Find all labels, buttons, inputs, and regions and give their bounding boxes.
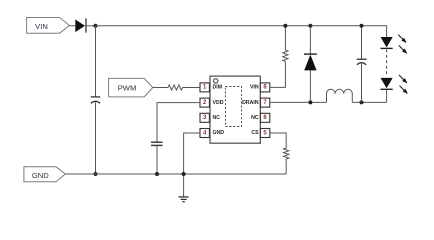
node C junction (C2 on ground rail) xyxy=(155,172,159,176)
LED1 emission arrows xyxy=(398,35,406,54)
U1 pin name GND xyxy=(213,130,225,136)
svg-text:PWM: PWM xyxy=(118,84,137,93)
resistor R3 (current sense, vertical) xyxy=(284,148,289,159)
wire LED2 to drain rail xyxy=(386,89,388,102)
svg-text:GND: GND xyxy=(213,130,225,136)
capacitor C2 (VDD decoupling) xyxy=(151,142,163,145)
node B junction (C1 on ground rail) xyxy=(94,172,98,176)
svg-text:VIN: VIN xyxy=(35,22,48,31)
wire pin 8 VIN to resistor R2 xyxy=(270,62,286,88)
wire node A down to capacitor C1 xyxy=(95,26,97,97)
svg-text:DRAIN: DRAIN xyxy=(242,100,259,106)
node D junction (pin4 on ground rail) xyxy=(182,172,186,176)
svg-text:VDD: VDD xyxy=(213,100,224,106)
pin 8 box xyxy=(260,83,269,92)
svg-text:NC: NC xyxy=(213,115,221,121)
U1 pin name NC (pin 3) xyxy=(213,115,221,121)
svg-text:CS: CS xyxy=(251,130,259,136)
wire pin 4 GND down to ground xyxy=(184,133,200,197)
node I junction (C3 on top rail) xyxy=(360,24,364,28)
wire VIN flag to diode D1 xyxy=(69,25,75,27)
wire resistor R3 to ground rail xyxy=(285,159,287,174)
flag GND xyxy=(24,167,65,182)
resistor R1 (PWM series) xyxy=(168,85,183,90)
LED1 xyxy=(381,37,393,48)
wire resistor R2 to top rail xyxy=(284,26,286,50)
node H junction (C3 on drain rail) xyxy=(360,100,364,104)
flag PWM xyxy=(109,78,153,97)
U1 pin name DIM xyxy=(213,85,223,91)
U1 pin name VDD xyxy=(213,100,224,106)
node F junction (D2 on top rail) xyxy=(308,24,312,28)
wire diode D1 to node A xyxy=(86,25,96,27)
svg-text:VIN: VIN xyxy=(250,85,259,91)
wire capacitor C3 to drain rail xyxy=(361,64,363,103)
op-amp U1 IC body (8-pin driver) xyxy=(210,76,260,143)
U1 pin name NC (pin 6) xyxy=(251,115,259,121)
U1 pin name CS xyxy=(251,130,259,136)
LED2 emission arrows xyxy=(399,75,407,93)
wire top rail VIN xyxy=(96,25,388,27)
wire capacitor C1 to ground rail xyxy=(95,102,97,174)
node E junction (R2 on top rail) xyxy=(283,24,287,28)
node A junction (input rail) xyxy=(94,24,98,28)
wire inductor L1 to LED return xyxy=(352,101,386,103)
diode D1 (series input diode) xyxy=(75,18,86,32)
pin 6 box xyxy=(260,113,269,122)
pin 7 box xyxy=(260,98,269,107)
pin 4 box xyxy=(200,129,209,138)
wire pin 7 DRAIN rail xyxy=(270,101,327,103)
wire top rail down to capacitor C3 xyxy=(361,26,363,59)
pin 1 box xyxy=(200,83,209,92)
wire top rail down to diode D2 xyxy=(309,26,311,54)
diode D2 (freewheeling, cathode up) xyxy=(304,54,317,70)
svg-text:DIM: DIM xyxy=(213,85,223,91)
wire PWM flag to resistor R1 xyxy=(153,87,168,89)
wire dashed LED string continuation xyxy=(386,50,388,77)
capacitor C3 (output, polarized) xyxy=(357,59,367,65)
flag VIN xyxy=(27,18,70,34)
pin 3 box xyxy=(200,113,209,122)
capacitor C1 (input bulk cap, polarized) xyxy=(91,97,101,104)
U1 pin name VIN xyxy=(250,85,259,91)
U1 internal dashed block xyxy=(225,87,241,127)
wire pin 5 CS to resistor R3 xyxy=(270,133,286,148)
U1 pin-1 indicator circle xyxy=(214,79,218,83)
svg-text:NC: NC xyxy=(251,115,259,121)
pin 2 box xyxy=(200,98,209,107)
wire resistor R1 to pin 1 xyxy=(183,87,200,89)
wire top rail corner down to LED1 xyxy=(386,26,388,37)
resistor R2 (VIN startup, vertical) xyxy=(283,50,288,62)
svg-text:GND: GND xyxy=(32,171,49,180)
wire diode D2 to drain rail xyxy=(309,70,311,102)
ground symbol xyxy=(179,197,189,202)
wire pin 2 VDD to capacitor C2 xyxy=(157,103,200,143)
wire ground rail xyxy=(65,173,286,175)
inductor L1 xyxy=(327,89,353,102)
node G junction (D2 on drain rail) xyxy=(308,100,312,104)
pin 5 box xyxy=(260,129,269,138)
wire capacitor C2 to ground rail xyxy=(156,145,158,174)
U1 pin name DRAIN xyxy=(242,100,259,106)
LED2 xyxy=(381,78,393,89)
